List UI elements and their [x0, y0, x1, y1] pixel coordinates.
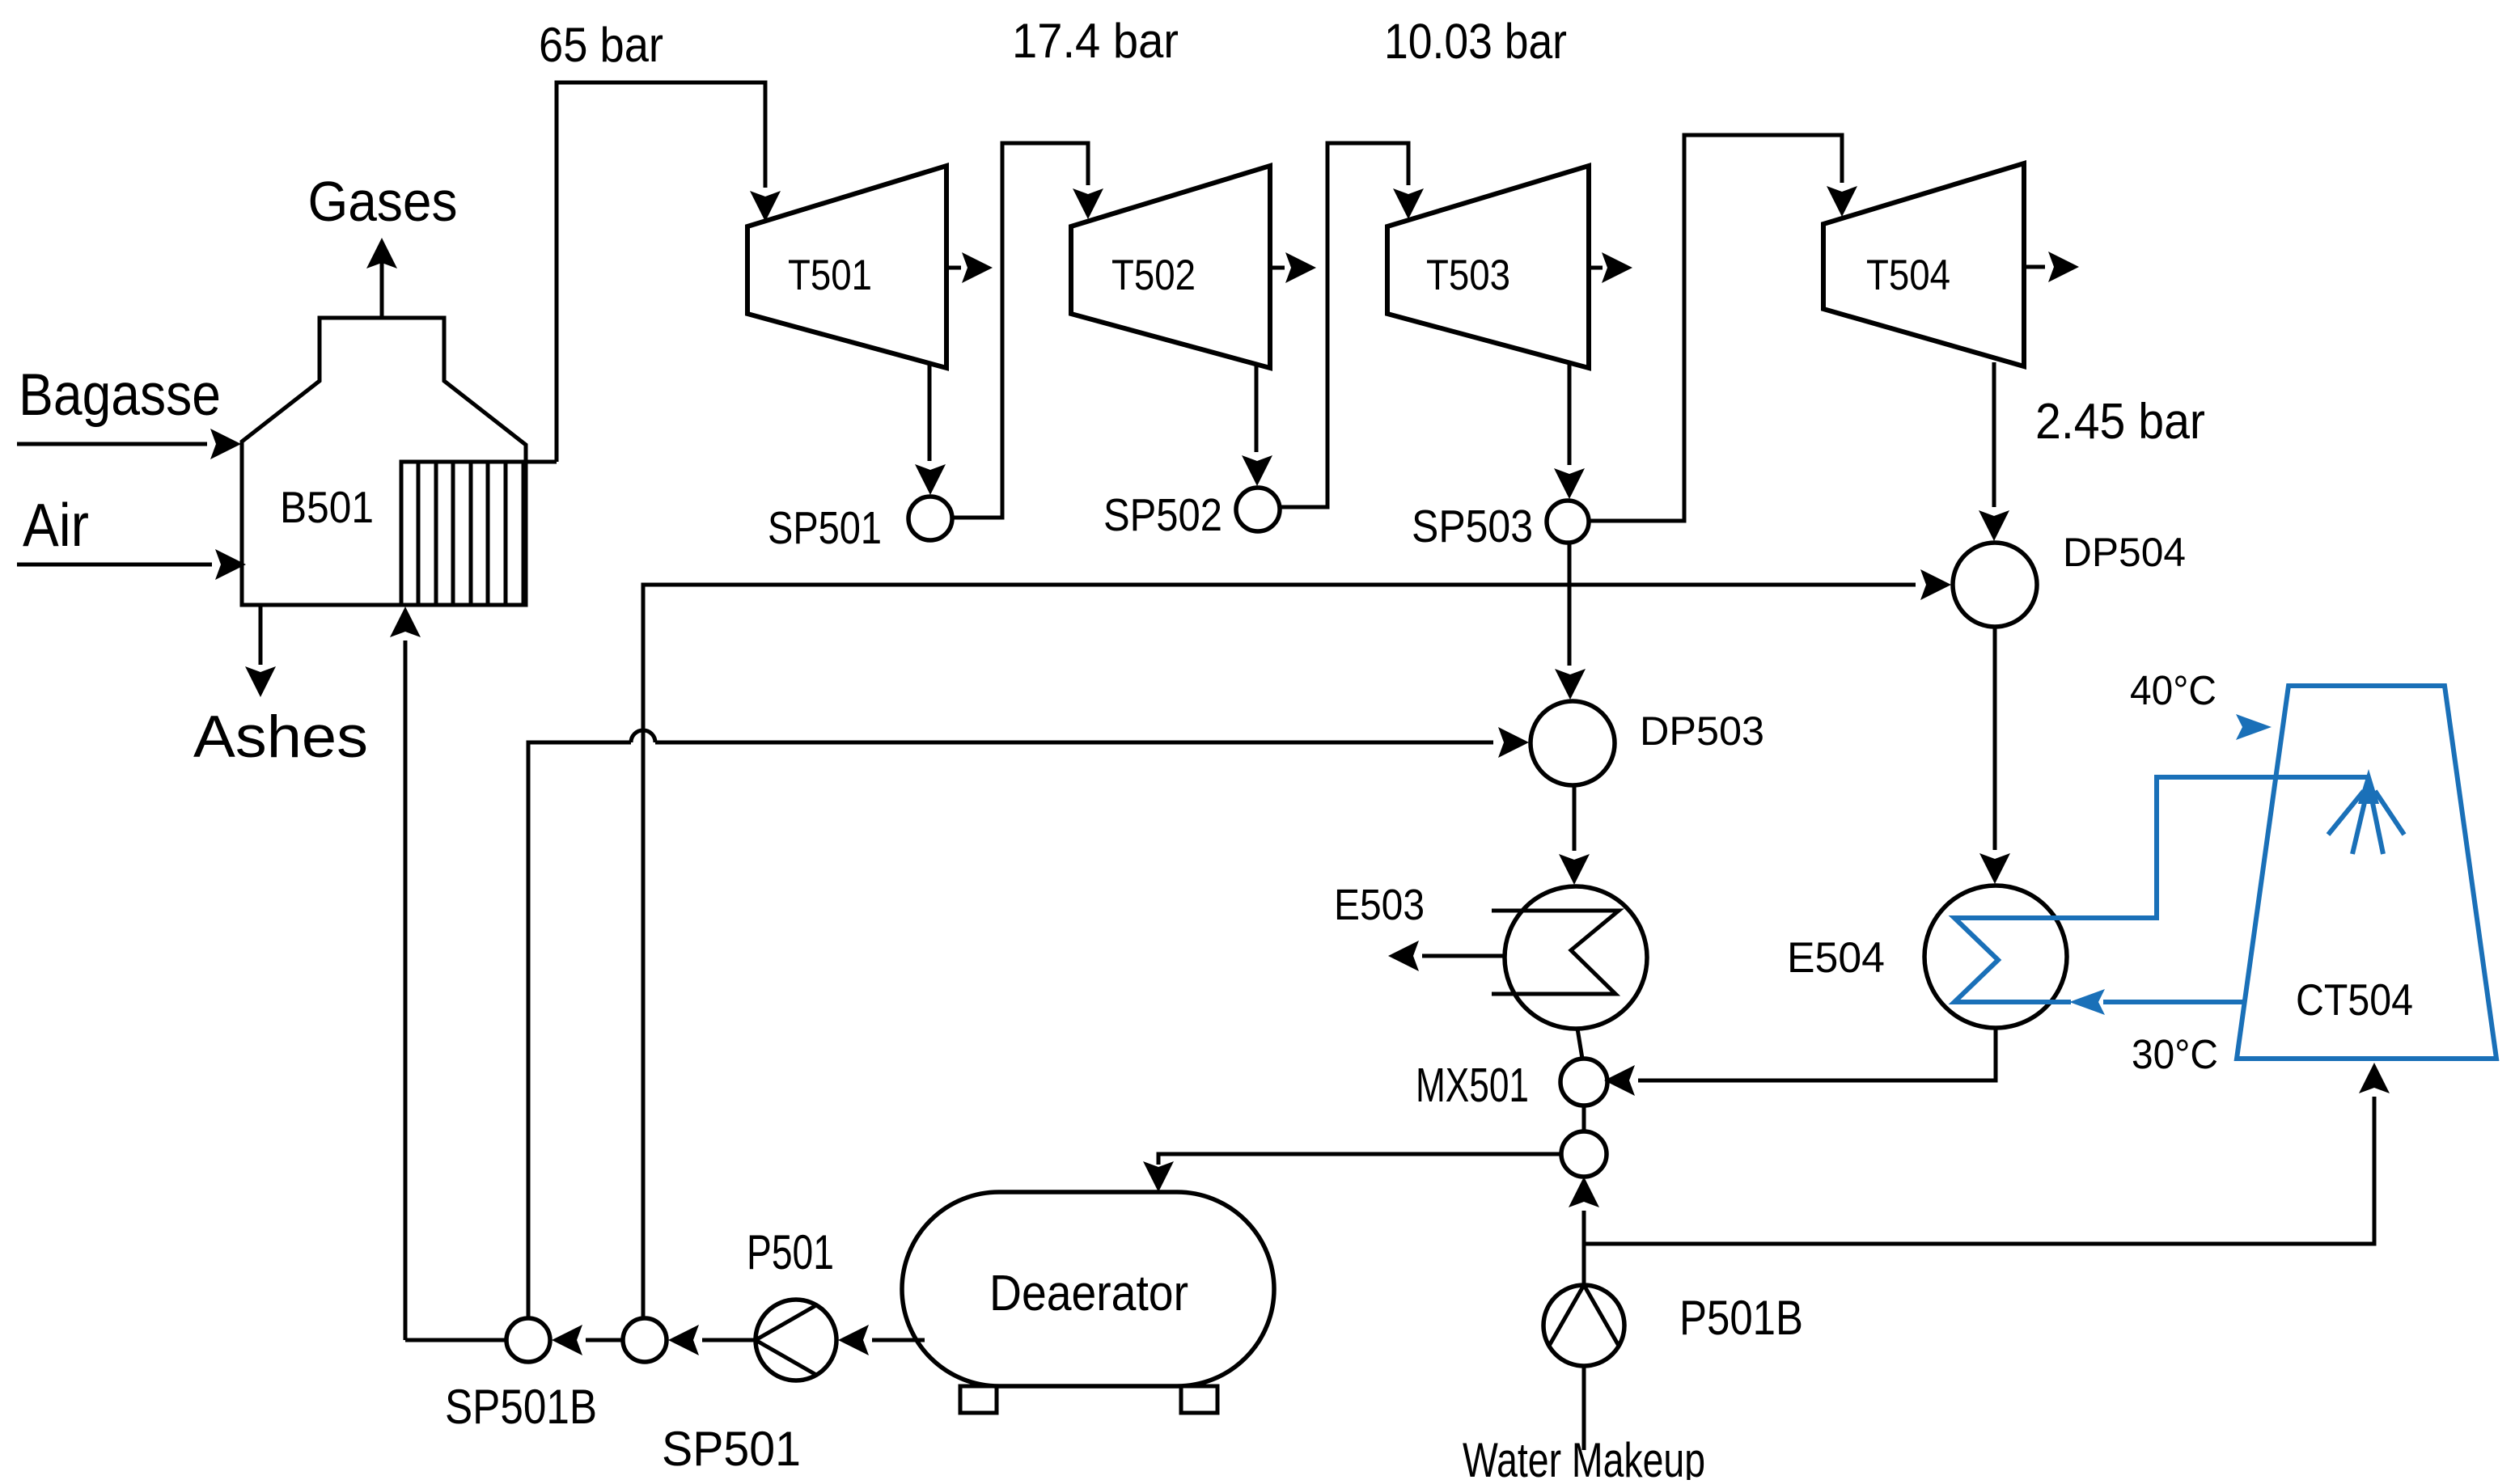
svg-text:SP501: SP501: [662, 1422, 801, 1476]
wire: boiler feedwater riser into B501 bottom: [390, 607, 421, 1340]
svg-text:40°C: 40°C: [2130, 667, 2217, 713]
svg-text:30°C: 30°C: [2132, 1031, 2218, 1077]
heat exchanger E503 coil: [1492, 911, 1619, 994]
wire: E503 process heat outlet arrow: [1388, 941, 1505, 971]
wire: T502 exhaust down to SP502: [1242, 364, 1272, 486]
svg-text:CT504: CT504: [2296, 975, 2413, 1025]
svg-text:Water Makeup: Water Makeup: [1463, 1433, 1705, 1480]
wire: bagasse feed into B501: [17, 429, 241, 459]
wire: E504 condensate down to MX501: [1604, 1028, 1996, 1096]
svg-text:65 bar: 65 bar: [539, 18, 663, 72]
wire: T504 exhaust down to DP504: [1979, 362, 2009, 541]
svg-text:T504: T504: [1866, 252, 1950, 299]
wire: water makeup riser into junction: [1569, 1177, 1599, 1244]
wire: SP501 riser line to DP504: [643, 569, 1951, 1317]
turbine T504: [1823, 163, 2024, 366]
valve DP503: [1531, 701, 1615, 785]
splitter SP501B (feedwater): [506, 1318, 550, 1362]
svg-text:B501: B501: [280, 482, 374, 532]
svg-text:DP503: DP503: [1640, 708, 1764, 754]
wire: water makeup into P501B: [1582, 1366, 1586, 1450]
heat exchanger E504: [1924, 886, 2067, 1028]
wire: SP501 to T502 inlet (17.4 bar): [952, 143, 1103, 518]
svg-text:T502: T502: [1111, 252, 1196, 299]
svg-text:Air: Air: [23, 491, 89, 559]
svg-text:Bagasse: Bagasse: [19, 362, 221, 428]
svg-text:SP501B: SP501B: [445, 1380, 597, 1434]
pump P501: [756, 1300, 836, 1380]
wire: SP502 to T503 inlet (10.03 bar): [1280, 143, 1424, 507]
wire: P501 to SP501 bottom: [668, 1325, 756, 1355]
wire: SP503 down to DP503: [1555, 543, 1586, 700]
heat exchanger E504 cooling water coil (blue): [1954, 777, 2369, 1002]
wire: SP501B riser line to DP503 with hop: [528, 727, 1529, 1317]
svg-text:E504: E504: [1787, 934, 1885, 982]
svg-text:P501: P501: [747, 1225, 834, 1279]
valve DP504: [1953, 543, 2037, 627]
splitter SP501 (turbine extraction): [908, 497, 952, 540]
svg-text:10.03 bar: 10.03 bar: [1384, 14, 1567, 69]
svg-text:Gases: Gases: [308, 170, 458, 233]
svg-text:2.45 bar: 2.45 bar: [2035, 394, 2205, 450]
wire: DP503 down to E503: [1559, 785, 1590, 885]
turbine T502: [1071, 166, 1270, 368]
wire: T501 exhaust down to SP501: [915, 362, 946, 495]
svg-text:SP501: SP501: [768, 502, 882, 554]
mixer MX501: [1560, 1059, 1607, 1106]
svg-text:P501B: P501B: [1679, 1291, 1803, 1345]
splitter SP503 (turbine extraction): [1547, 501, 1589, 543]
wire: T502 shaft work outlet arrow: [1270, 252, 1316, 283]
wire: T501 shaft work outlet arrow: [946, 252, 993, 283]
vessel Deaerator feet: [960, 1386, 1217, 1413]
wire: cooling water return CT504 to E504 (blue): [2069, 989, 2244, 1015]
vessel Deaerator: [902, 1192, 1274, 1386]
heat exchanger E503: [1505, 886, 1647, 1029]
boiler B501 body: [242, 318, 526, 605]
svg-text:SP502: SP502: [1103, 489, 1222, 541]
wire: air feed into B501: [17, 549, 246, 580]
wire: DP504 down to E504: [1979, 627, 2010, 884]
svg-text:E503: E503: [1334, 881, 1425, 929]
wire: junction to deaerator inlet: [1143, 1154, 1561, 1192]
wire: T504 shaft work outlet arrow: [2024, 252, 2079, 282]
wire: 65 bar steam main B501 to T501: [557, 82, 781, 462]
boiler B501 tube bank: [401, 462, 557, 605]
wire: P501B discharge up to branch: [1582, 1244, 1586, 1285]
svg-text:Deaerator: Deaerator: [989, 1266, 1188, 1321]
wire: MX501 to junction link: [1582, 1106, 1586, 1131]
pump P501B: [1543, 1285, 1624, 1366]
turbine T503: [1387, 166, 1589, 368]
wire: ashes outlet from B501 bottom: [245, 605, 276, 697]
splitter SP502 (turbine extraction): [1236, 488, 1280, 531]
wire: E503 to MX501 link: [1577, 1029, 1582, 1059]
wire: deaerator outlet to P501: [838, 1325, 925, 1355]
turbine T501: [747, 166, 946, 368]
cooling tower CT504 shell (blue): [2237, 686, 2496, 1059]
wire: T503 exhaust down to SP503: [1554, 364, 1585, 499]
svg-text:T503: T503: [1426, 252, 1510, 299]
svg-text:MX501: MX501: [1416, 1059, 1529, 1112]
wire: gases outlet from B501 top: [366, 238, 397, 318]
wire: hot water inlet arrowhead into CT504 (blue): [2236, 714, 2272, 740]
svg-text:Ashes: Ashes: [193, 704, 368, 770]
wire: T503 shaft work outlet arrow: [1589, 252, 1632, 283]
wire: SP503 to T504 inlet: [1589, 135, 1857, 521]
cooling tower spray nozzle (blue): [2328, 769, 2404, 854]
svg-text:DP504: DP504: [2063, 530, 2186, 575]
svg-text:SP503: SP503: [1412, 501, 1533, 552]
node: water makeup junction: [1561, 1131, 1607, 1177]
wire: SP501 to SP501B: [552, 1325, 623, 1355]
svg-text:T501: T501: [788, 252, 872, 299]
wire: makeup branch to cooling tower: [1584, 1063, 2390, 1244]
svg-text:17.4 bar: 17.4 bar: [1012, 14, 1179, 68]
splitter SP501 (feedwater): [623, 1318, 667, 1362]
wire: SP501B to boiler feed corner: [405, 1338, 506, 1342]
